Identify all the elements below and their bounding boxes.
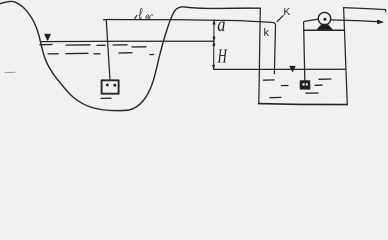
svg-text:вс: вс <box>145 11 153 23</box>
svg-text:a: a <box>217 14 225 36</box>
svg-text:k: k <box>264 27 270 39</box>
svg-text:H: H <box>217 45 228 68</box>
svg-text:K: K <box>284 7 291 18</box>
svg-text:ℓ: ℓ <box>138 5 142 23</box>
